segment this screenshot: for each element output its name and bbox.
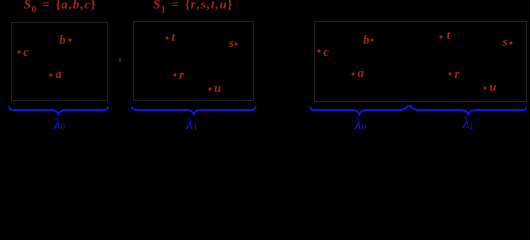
label lambda1 (under box 2): [186, 117, 197, 133]
box S0: [11, 22, 109, 102]
label S0 = {a,b,c}: [24, 0, 97, 15]
label lambda0 (under box 1): [54, 117, 65, 133]
label lambda0 (under box 3 left): [355, 117, 366, 133]
point u (box 2): [214, 81, 221, 94]
point c (box 1): [23, 46, 29, 59]
comma between boxes: [119, 59, 121, 63]
point r (box 2): [179, 68, 184, 81]
underbrace lambda0 (box 1): [9, 106, 108, 114]
point t (box 2): [172, 30, 175, 43]
mathematical diagram: sets S0, S1 with labelled points, boxes, underbraces: [0, 0, 530, 133]
point s (box 2): [229, 37, 234, 50]
label lambda1 (under box 3 right): [462, 116, 473, 132]
point u (box 3): [489, 81, 496, 94]
point s (box 3): [503, 36, 508, 49]
point a (box 1): [55, 68, 61, 81]
box S0 x S1 (combined): [314, 21, 527, 102]
underbrace lambda0 (box 3 left): [310, 105, 408, 114]
underbrace lambda1 (box 3 right): [410, 105, 527, 114]
box S1: [133, 21, 254, 101]
point t (box 3): [447, 29, 450, 42]
label S1 = {r,s,t,u}: [153, 0, 233, 15]
point b (box 1): [59, 34, 65, 47]
point r (box 3): [454, 68, 459, 81]
underbrace lambda1 (box 2): [132, 106, 256, 114]
underbraces: [0, 0, 530, 133]
point c (box 3): [323, 45, 329, 58]
point b (box 3): [363, 33, 369, 46]
point a (box 3): [357, 67, 363, 80]
